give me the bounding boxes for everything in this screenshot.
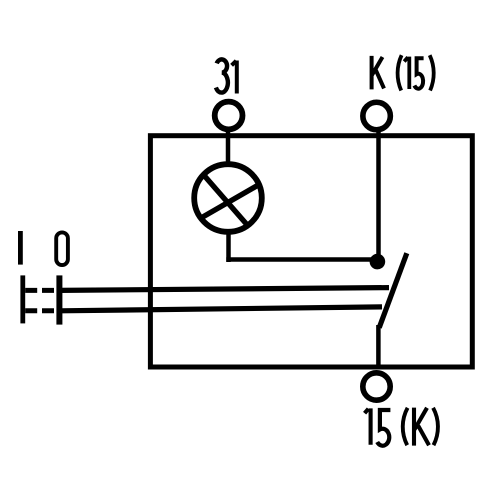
lamp L1 circle [194, 164, 262, 232]
label K(15) paren ( [398, 55, 402, 90]
terminal K(15) circle [363, 102, 391, 130]
actuator rod lower [60, 307, 382, 311]
dashed link upper [25, 288, 56, 293]
label 15(K) digit 5 [377, 410, 390, 446]
switch lever S1 [379, 253, 407, 328]
wire lamp to junction [226, 257, 377, 262]
label 15(K) paren ( [403, 408, 408, 445]
lamp X stroke 2 [200, 184, 261, 219]
label 31 digit 3 [216, 59, 228, 92]
terminal 31 circle [215, 102, 243, 130]
label 15(K) paren ) [433, 408, 438, 445]
wire lever to 15(K) [376, 325, 381, 369]
position label I [18, 231, 23, 265]
wire K(15) down to junction [376, 130, 381, 262]
label K(15) paren ) [430, 55, 434, 90]
relay housing box [150, 136, 472, 367]
position label 0 [56, 232, 68, 265]
label K(15) letter K [372, 56, 384, 90]
junction node dot [370, 254, 386, 270]
label K(15) digit 1 [404, 57, 409, 89]
dashed link lower [25, 308, 56, 313]
terminal 15(K) circle [363, 373, 390, 400]
label 15(K) letter K [414, 408, 429, 446]
wire 31 to lamp [226, 130, 231, 166]
label 31 digit 1 [232, 61, 237, 94]
label K(15) digit 5 [414, 58, 423, 88]
wire lamp bottom [226, 230, 231, 262]
actuator bar right [56, 275, 62, 324]
actuator bar left [20, 275, 25, 323]
label 15(K) digit 1 [365, 408, 371, 444]
lamp X stroke 1 [203, 175, 247, 226]
actuator rod upper [60, 288, 389, 291]
